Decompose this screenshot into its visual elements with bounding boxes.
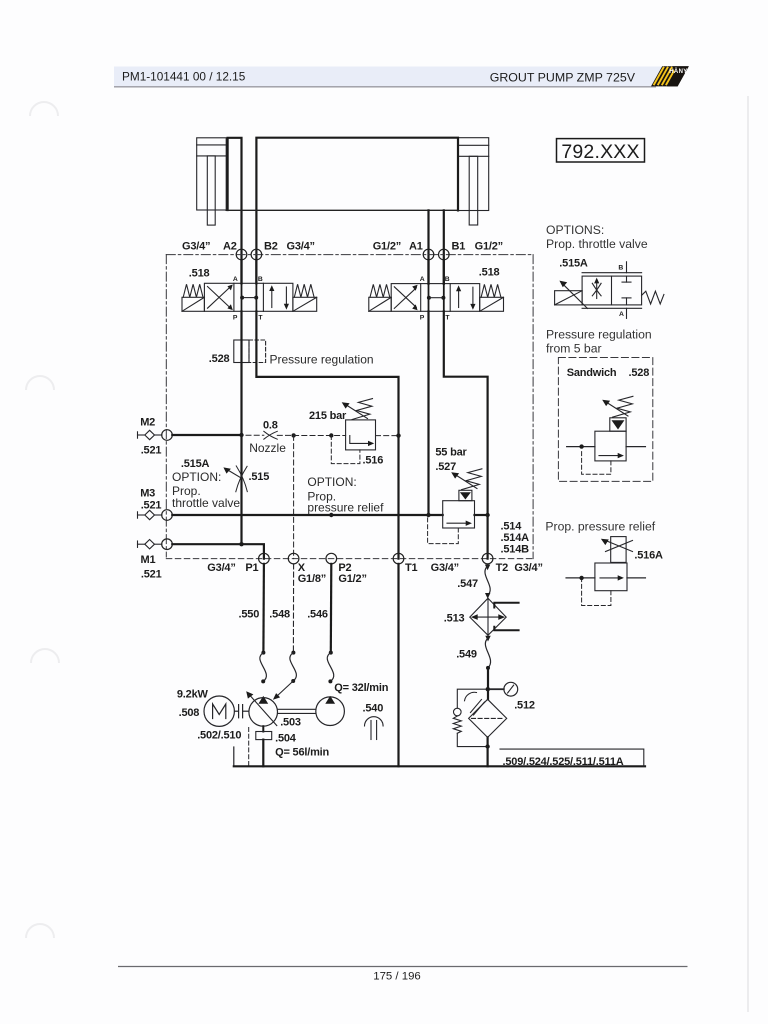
svg-text:.515A: .515A <box>559 258 588 270</box>
wire pilot .516 drain dashed <box>331 436 360 464</box>
part number box 792.XXX <box>557 139 645 163</box>
node pilot junction on T1 <box>396 433 400 437</box>
valve .518 left label <box>189 268 210 280</box>
svg-text:B: B <box>618 264 623 271</box>
svg-text:HÄNY: HÄNY <box>669 68 687 75</box>
svg-text:.518: .518 <box>189 268 210 280</box>
gauge .512 <box>490 682 518 696</box>
label .516A <box>634 550 663 562</box>
svg-text:throttle valve: throttle valve <box>172 496 240 510</box>
node M2 boundary circle <box>162 430 173 441</box>
cylinder right (delivery cylinder) <box>458 138 488 225</box>
label M1 .521 <box>141 554 162 581</box>
svg-text:A1: A1 <box>409 241 423 253</box>
svg-text:.512: .512 <box>514 700 535 712</box>
sandwich dashed box <box>558 358 652 482</box>
svg-text:.521: .521 <box>141 445 162 457</box>
header doc number <box>122 70 246 84</box>
label 215 bar <box>309 410 347 422</box>
punch holes <box>26 102 59 938</box>
svg-text:Sandwich: Sandwich <box>567 367 617 379</box>
wire manifold bottom edge <box>226 209 458 211</box>
wire A1 riser <box>427 210 429 283</box>
svg-text:.513: .513 <box>444 613 465 625</box>
svg-text:T: T <box>258 315 263 322</box>
svg-text:A: A <box>420 276 425 283</box>
top port labels <box>182 241 503 253</box>
label 9.2kW .508 <box>177 689 209 720</box>
label .515 option <box>172 458 269 510</box>
svg-text:215 bar: 215 bar <box>309 410 347 422</box>
svg-text:.527: .527 <box>435 461 456 473</box>
hose .547 from T2 <box>485 565 491 599</box>
bottom port labels <box>207 562 542 585</box>
node B2 port circle <box>251 249 262 260</box>
svg-text:.549: .549 <box>456 649 477 661</box>
svg-text:.540: .540 <box>363 703 384 715</box>
wire P line right valve down to junction <box>427 311 429 515</box>
svg-text:G3/4”: G3/4” <box>431 562 459 574</box>
svg-text:Prop. pressure relief: Prop. pressure relief <box>545 520 655 534</box>
svg-text:.515A: .515A <box>181 458 210 470</box>
svg-text:.514: .514 <box>501 521 523 533</box>
option valve .515A symbol <box>582 262 642 319</box>
svg-text:M2: M2 <box>140 417 155 429</box>
svg-text:T: T <box>445 315 450 322</box>
svg-text:.514B: .514B <box>501 544 530 556</box>
svg-text:175 / 196: 175 / 196 <box>373 971 421 983</box>
node junction M2/P <box>239 433 243 437</box>
node T1 port circle <box>393 553 404 564</box>
shaft between pumps <box>278 709 316 713</box>
svg-text:.514A: .514A <box>501 532 530 544</box>
svg-text:Pressure regulation: Pressure regulation <box>546 328 652 342</box>
svg-text:OPTION:: OPTION: <box>307 475 356 489</box>
label Q=56l/min <box>275 747 329 759</box>
wire B1 riser <box>443 210 445 283</box>
svg-text:.515: .515 <box>249 471 270 483</box>
tank agitator mark <box>465 692 485 715</box>
svg-text:.521: .521 <box>141 569 162 581</box>
port M2 (gauge port diamond) <box>138 430 162 439</box>
svg-text:P2: P2 <box>338 562 351 574</box>
svg-text:792.XXX: 792.XXX <box>561 141 639 163</box>
orifice .504 under pump <box>256 726 272 766</box>
svg-text:G3/4”: G3/4” <box>207 562 235 574</box>
label .503 <box>280 717 301 729</box>
sandwich through line <box>567 444 646 448</box>
option valve prop solenoid left <box>555 284 588 308</box>
label .528 <box>209 353 230 365</box>
wire tank to rail <box>487 737 489 766</box>
wire T line right valve jog to T2 <box>444 311 488 558</box>
label Q=32l/min <box>334 682 388 694</box>
svg-text:PM1-101441 00 / 12.15: PM1-101441 00 / 12.15 <box>122 70 246 84</box>
sandwich plate .528 (pressure regulation) <box>234 340 266 363</box>
wire pilot .527 drain dashed <box>428 518 459 544</box>
pump inlet triangle left <box>258 696 268 704</box>
svg-text:T2: T2 <box>496 562 509 574</box>
svg-text:0.8: 0.8 <box>263 420 278 432</box>
spring .516 <box>352 399 372 420</box>
label .502/.510 <box>197 730 241 742</box>
arrow control into pump swashplate <box>273 681 293 700</box>
hose .546 <box>327 651 334 684</box>
svg-text:.550: .550 <box>239 609 260 621</box>
wire .527 outlet to T2 <box>475 514 488 516</box>
label .513 <box>444 613 465 625</box>
label 55 bar .527 <box>435 447 467 474</box>
svg-text:.518: .518 <box>479 267 500 279</box>
svg-text:.521: .521 <box>141 500 162 512</box>
wire P2 drop line .546 <box>330 564 333 653</box>
wire tank return rail <box>234 765 645 767</box>
svg-text:GROUT PUMP ZMP 725V: GROUT PUMP ZMP 725V <box>490 71 636 85</box>
sandwich prop arrow <box>602 400 628 416</box>
wire pipe A2 riser with jog over left cylinder <box>228 138 242 284</box>
valve .518 right label <box>479 267 500 279</box>
node A1 port circle <box>423 249 434 260</box>
svg-text:G3/4”: G3/4” <box>182 241 210 253</box>
node junction M1/P <box>239 542 243 546</box>
svg-text:P: P <box>233 315 238 322</box>
node A2 port circle <box>236 249 247 260</box>
svg-text:OPTIONS:: OPTIONS: <box>546 223 604 237</box>
label sandwich .528 <box>567 367 649 379</box>
label pressure regulation from 5 bar <box>546 328 652 356</box>
svg-text:B: B <box>258 276 263 283</box>
node T2 port circle <box>482 553 493 564</box>
arrow prop .516 <box>342 402 368 418</box>
svg-text:55 bar: 55 bar <box>435 447 467 459</box>
valve .518 right (4/3 directional valve) <box>369 284 504 312</box>
pump .503 circle <box>316 697 345 726</box>
node junction right valve P <box>426 513 430 517</box>
svg-text:T1: T1 <box>405 562 418 574</box>
wire pilot dashed to .516 <box>294 435 346 437</box>
node M3 boundary circle <box>162 510 173 521</box>
svg-text:.528: .528 <box>209 353 230 365</box>
node B1 port circle <box>439 249 450 260</box>
sandwich relief valve symbol <box>595 418 626 461</box>
label .549 <box>456 649 477 661</box>
svg-text:M3: M3 <box>140 488 155 500</box>
label shelf for tank group <box>500 749 644 766</box>
svg-text:.546: .546 <box>307 609 328 621</box>
breather .540 <box>363 703 384 740</box>
motor .508 <box>204 696 234 726</box>
filter .513 <box>470 598 506 635</box>
relief valve .516 (215 bar) <box>346 420 376 450</box>
node P2 port circle <box>326 553 337 564</box>
paper crease <box>747 96 749 1012</box>
node P1 port circle <box>259 553 270 564</box>
svg-text:B: B <box>445 276 450 283</box>
svg-text:.548: .548 <box>269 609 290 621</box>
node junction on T2 <box>485 513 489 517</box>
label M2 .521 <box>140 417 161 457</box>
pump inlet triangle right <box>325 696 335 704</box>
svg-text:A: A <box>233 276 238 283</box>
label .515A <box>559 258 588 270</box>
svg-text:P1: P1 <box>245 562 258 574</box>
sandwich spring <box>613 396 633 417</box>
footer rule <box>118 966 688 968</box>
label pressure regulation <box>270 353 374 367</box>
svg-text:.516A: .516A <box>634 550 663 562</box>
svg-text:pressure relief: pressure relief <box>307 501 384 515</box>
spring .527 <box>462 469 482 490</box>
node X port circle <box>288 553 299 564</box>
nozzle 0.8 restrictor <box>246 431 294 439</box>
node pilot junction at P2 column <box>329 433 333 437</box>
label option prop pressure relief <box>307 475 384 515</box>
sandwich pilot dashed <box>582 449 611 474</box>
svg-text:G3/4”: G3/4” <box>287 241 315 253</box>
wire .516A pilot dashed <box>582 580 611 605</box>
relief valve .527 (55 bar) <box>443 490 475 528</box>
wire left valve lines through body <box>242 260 257 312</box>
wire right valve lines through body <box>429 260 444 312</box>
relief branch with spring beside tank <box>453 689 487 746</box>
header title <box>490 71 636 85</box>
wire X drop dashed .548 <box>292 564 294 653</box>
wire M3 pressure rail to relief <box>172 514 442 516</box>
hose .550 <box>260 651 267 684</box>
valve .516A main square <box>595 563 627 591</box>
svg-text:G1/2”: G1/2” <box>475 241 503 253</box>
valve .518 left port letters <box>233 276 264 322</box>
svg-text:9.2kW: 9.2kW <box>177 689 209 701</box>
logo Häny <box>651 66 689 86</box>
wire M2 to P line <box>172 434 241 436</box>
svg-text:X: X <box>298 562 306 574</box>
wire T1 column to rail <box>397 564 399 766</box>
SECTION: schematic <box>138 138 664 768</box>
header band <box>114 67 663 87</box>
wire .516A through line <box>566 576 645 580</box>
svg-text:.504: .504 <box>275 733 297 745</box>
svg-text:G3/4”: G3/4” <box>514 562 542 574</box>
cylinder left (delivery cylinder) <box>197 138 227 225</box>
wire P1 drop line .550 <box>262 564 265 653</box>
label .550 .548 .546 <box>239 609 328 621</box>
svg-text:B2: B2 <box>264 241 278 253</box>
svg-text:.528: .528 <box>629 367 650 379</box>
hose .548 <box>290 651 297 683</box>
svg-text:P: P <box>420 315 425 322</box>
svg-text:.547: .547 <box>457 578 478 590</box>
node gauge junction <box>486 687 490 691</box>
valve .516A throttle element <box>606 537 633 563</box>
svg-text:Prop. throttle valve: Prop. throttle valve <box>546 237 648 251</box>
throttle option .515 on P line <box>227 466 247 492</box>
wire T line left valve jog to T1 <box>256 311 398 558</box>
svg-text:G1/2”: G1/2” <box>338 573 366 585</box>
label 0.8 nozzle <box>249 420 286 456</box>
svg-text:A2: A2 <box>223 241 237 253</box>
node tank bottom junction <box>485 744 489 748</box>
svg-text:from 5 bar: from 5 bar <box>546 342 602 356</box>
svg-text:A: A <box>619 311 624 318</box>
svg-text:M1: M1 <box>141 554 156 566</box>
wire M1 line and P jog to P1 <box>172 544 264 558</box>
hose .549 <box>485 636 490 670</box>
arrow prop .527 <box>451 472 477 488</box>
label .516 <box>363 455 384 467</box>
wire down to tank junction <box>487 668 489 699</box>
tank .509 diamond <box>469 699 507 737</box>
svg-text:G1/8”: G1/8” <box>298 573 326 585</box>
coupling motor-pump <box>235 705 249 718</box>
svg-text:B1: B1 <box>452 241 466 253</box>
valve .518 left (4/3 directional valve) <box>182 283 317 311</box>
wire P line left valve down to M1 junction <box>240 311 242 544</box>
option valve spring right <box>642 291 664 304</box>
label .547 <box>457 578 478 590</box>
port M1 (gauge port diamond) <box>138 540 162 549</box>
wire pilot dashed X column down <box>293 435 295 558</box>
svg-text:Q= 32l/min: Q= 32l/min <box>334 682 388 694</box>
node M1 boundary circle <box>162 539 173 550</box>
svg-text:Pressure regulation: Pressure regulation <box>270 353 374 367</box>
label B and A ports <box>618 264 624 318</box>
svg-text:OPTION:: OPTION: <box>172 470 221 484</box>
svg-text:.516: .516 <box>363 455 384 467</box>
label .514 variants <box>501 521 530 556</box>
enclosure boundary (dash-dot block limit) <box>166 255 533 559</box>
wire rail left riser <box>233 747 235 766</box>
svg-text:Q= 56l/min: Q= 56l/min <box>275 747 329 759</box>
wire case drain dashed <box>248 728 250 767</box>
pump .502 circle (variable) <box>246 691 277 726</box>
footer page number <box>373 971 421 983</box>
filter bypass stubs <box>494 603 518 631</box>
label M3 .521 <box>140 488 161 512</box>
svg-text:.509/.524/.525/.511/.511A: .509/.524/.525/.511/.511A <box>503 756 624 768</box>
label prop pressure relief <box>545 520 655 534</box>
svg-text:.502/.510: .502/.510 <box>197 730 241 742</box>
label .512 <box>514 700 535 712</box>
svg-text:G1/2”: G1/2” <box>373 241 401 253</box>
svg-text:.508: .508 <box>179 707 200 719</box>
svg-text:.503: .503 <box>280 717 301 729</box>
wire pilot .516 outlet to T1 <box>376 435 399 437</box>
valve .518 right port letters <box>420 276 451 321</box>
label .509 group <box>503 756 624 768</box>
port M3 (gauge port diamond) <box>138 510 162 519</box>
label options heading <box>546 223 648 251</box>
node pilot junction X branch <box>291 433 295 437</box>
label .504 <box>275 733 297 745</box>
wire header block outline (top manifold) <box>256 138 458 284</box>
node junction P2 <box>329 513 333 517</box>
svg-text:Nozzle: Nozzle <box>249 441 286 455</box>
